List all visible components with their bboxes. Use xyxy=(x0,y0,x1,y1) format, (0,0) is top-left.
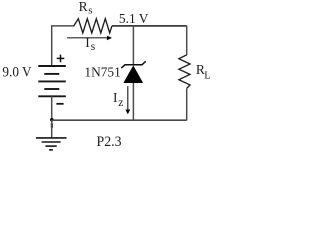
svg-text:I: I xyxy=(113,90,118,105)
svg-text:z: z xyxy=(118,97,123,109)
current arrow Is xyxy=(67,36,112,41)
wire ground stub xyxy=(51,120,53,138)
svg-text:s: s xyxy=(91,41,96,53)
svg-text:I: I xyxy=(85,35,90,50)
wire battery bottom stub xyxy=(51,96,53,120)
resistor R2 (RL) zigzag xyxy=(179,55,190,88)
zener diode D1 triangle (anode, pointing up) xyxy=(123,65,143,83)
svg-text:5.1 V: 5.1 V xyxy=(119,12,149,27)
svg-text:s: s xyxy=(88,5,92,17)
wire right vertical bottom xyxy=(186,88,188,120)
ground xyxy=(36,138,67,150)
wire zener bottom stub xyxy=(132,83,134,120)
svg-text:P2.3: P2.3 xyxy=(97,134,122,150)
wire top-middle segment xyxy=(112,25,133,27)
battery V1 plates xyxy=(38,66,66,96)
svg-text:R: R xyxy=(79,0,88,14)
battery V1 plus sign xyxy=(57,55,65,63)
wire right vertical top xyxy=(186,26,188,55)
wire bottom segment xyxy=(52,119,187,121)
svg-text:9.0 V: 9.0 V xyxy=(2,65,31,81)
zener diode D1 (1N751) cathode bar with wings xyxy=(121,61,145,68)
svg-text:1N751: 1N751 xyxy=(84,66,120,81)
battery V1 minus sign xyxy=(56,103,63,105)
wire thick mark below junction xyxy=(51,123,53,127)
svg-text:L: L xyxy=(204,71,210,82)
wire zener top stub xyxy=(132,26,134,65)
node junction dot xyxy=(50,118,54,122)
current arrow Iz xyxy=(125,86,130,114)
resistor R1 (Rs) zigzag xyxy=(74,19,112,33)
wire top-right segment xyxy=(133,25,186,27)
wire top-left segment xyxy=(52,26,75,66)
